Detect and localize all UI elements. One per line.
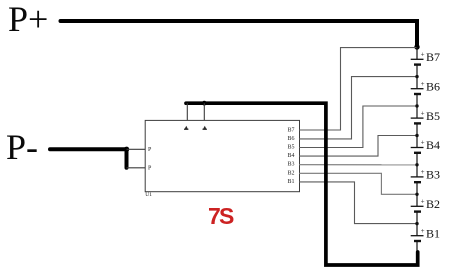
wire P- to pin P lower — [127, 167, 146, 169]
svg-text:+: + — [421, 168, 425, 176]
junction B4/B3 — [415, 163, 418, 166]
svg-text:B5: B5 — [287, 145, 294, 151]
wire U1 top pin 2 — [203, 103, 205, 120]
wire B- (thick) from pack bottom to U1 top pins — [186, 103, 418, 265]
wire B4 sense — [299, 136, 417, 157]
battery B4 — [411, 148, 424, 177]
svg-text:B1: B1 — [287, 179, 294, 185]
svg-text:+: + — [421, 51, 425, 59]
wire B7 sense — [299, 48, 417, 130]
battery B7 — [411, 47, 424, 89]
battery B5 — [411, 118, 424, 147]
IC U1 (BMS board) — [145, 120, 299, 191]
label B4 — [421, 138, 440, 152]
svg-text:U1: U1 — [145, 192, 152, 198]
svg-text:B7: B7 — [426, 50, 440, 64]
svg-text:+: + — [421, 227, 425, 235]
junction B7/B6 — [415, 75, 418, 78]
label B2 — [421, 197, 440, 211]
battery B6 — [411, 89, 424, 118]
wire B2 sense — [299, 173, 417, 194]
svg-text:P-: P- — [6, 127, 38, 167]
svg-text:B5: B5 — [426, 109, 440, 123]
svg-text:+: + — [421, 109, 425, 117]
svg-text:B2: B2 — [287, 170, 294, 176]
wire B6 sense — [299, 77, 417, 139]
svg-text:+: + — [421, 139, 425, 147]
wire P- to pin P upper — [127, 148, 146, 150]
junction B5/B4 — [415, 134, 418, 137]
svg-text:B4: B4 — [287, 153, 294, 159]
svg-text:B2: B2 — [426, 197, 440, 211]
svg-text:7S: 7S — [208, 203, 234, 229]
svg-text:P+: P+ — [8, 0, 48, 39]
svg-text:B6: B6 — [287, 136, 294, 142]
label B1 — [421, 226, 440, 240]
wire B3 sense — [299, 164, 417, 166]
svg-text:B3: B3 — [426, 168, 440, 182]
svg-text:+: + — [421, 80, 425, 88]
pin label top 2 — [203, 126, 207, 130]
label B7 — [421, 50, 440, 64]
svg-text:B6: B6 — [426, 79, 440, 93]
junction B3/B2 — [415, 193, 418, 196]
wire B1 sense — [299, 182, 417, 224]
wire P- (thick) — [50, 149, 127, 168]
battery B3 — [411, 177, 424, 206]
battery B2 — [411, 206, 424, 235]
wire B5 sense — [299, 106, 417, 148]
junction B- / pin 2 — [202, 101, 207, 106]
battery B1 — [411, 236, 424, 253]
junction P+ / B7 top — [414, 44, 419, 49]
svg-text:B4: B4 — [426, 138, 440, 152]
wire P+ (thick) — [61, 21, 418, 46]
svg-text:B3: B3 — [287, 162, 294, 168]
junction B6/B5 — [415, 104, 418, 107]
svg-text:B7: B7 — [287, 127, 294, 133]
label B5 — [421, 109, 440, 123]
svg-text:B1: B1 — [426, 226, 440, 240]
wire U1 top pin 1 — [186, 103, 188, 120]
label B6 — [421, 79, 440, 93]
pin label top 1 — [184, 126, 188, 130]
svg-text:+: + — [421, 198, 425, 206]
junction P- — [124, 147, 129, 152]
junction B2/B1 — [415, 222, 418, 225]
label B3 — [421, 168, 440, 182]
